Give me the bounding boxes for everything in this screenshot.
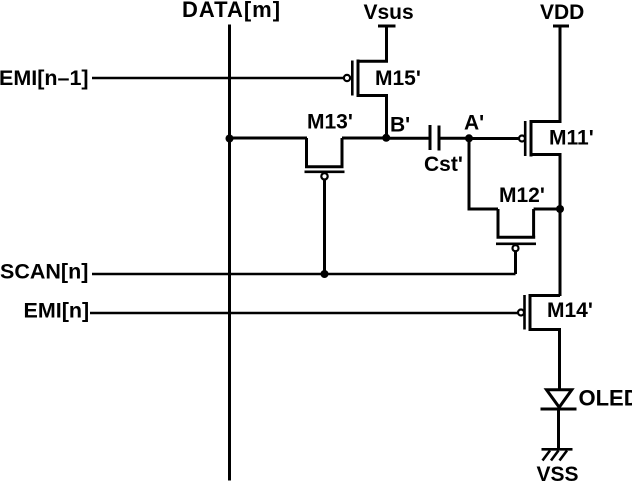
svg-text:Cst': Cst' xyxy=(424,153,463,176)
svg-text:SCAN[n]: SCAN[n] xyxy=(0,259,88,283)
power terminal Vsus xyxy=(378,25,396,28)
node A' xyxy=(465,134,473,142)
transistor M14' xyxy=(518,294,560,389)
wire row DATA to M13' xyxy=(230,137,308,140)
wire A' down to M12' xyxy=(469,139,498,210)
node B' xyxy=(382,134,390,142)
wire row M13' to B' xyxy=(342,137,386,140)
wire trunk junction to M14' xyxy=(559,209,562,296)
junction node DATA row xyxy=(226,135,234,143)
svg-text:M14': M14' xyxy=(547,299,593,322)
wire A' to M11' gate xyxy=(469,137,519,140)
wire VDD column xyxy=(559,26,562,122)
transistor M11' xyxy=(519,27,560,209)
svg-text:EMI[n–1]: EMI[n–1] xyxy=(0,66,89,90)
svg-text:DATA[m]: DATA[m] xyxy=(182,0,281,22)
wire EMI[n-1] row xyxy=(92,77,344,80)
wire EMI[n] row xyxy=(90,312,518,315)
svg-text:B': B' xyxy=(390,114,410,137)
junction node SCAN / M13' gate xyxy=(321,270,329,278)
transistor M13' xyxy=(305,138,345,274)
wire DATA column xyxy=(228,25,231,481)
wire SCAN[n] row xyxy=(92,273,516,276)
svg-text:M11': M11' xyxy=(549,127,594,150)
svg-text:M15': M15' xyxy=(375,67,421,90)
junction node M11'/M12' drain xyxy=(556,205,564,213)
transistor M12' xyxy=(496,209,560,274)
power terminal VDD xyxy=(553,25,569,28)
svg-text:OLED: OLED xyxy=(579,386,632,411)
wire OLED cathode to ground xyxy=(557,409,560,449)
wire B' to Cst' xyxy=(386,137,429,140)
svg-text:VDD: VDD xyxy=(540,1,584,24)
diode OLED xyxy=(541,390,577,409)
wire Cst' to A' xyxy=(440,137,469,140)
capacitor Cst' xyxy=(430,125,439,151)
svg-text:M12': M12' xyxy=(499,184,545,207)
svg-text:A': A' xyxy=(464,112,484,135)
ground VSS xyxy=(542,449,573,460)
svg-text:M13': M13' xyxy=(307,111,353,134)
svg-text:EMI[n]: EMI[n] xyxy=(24,298,90,322)
svg-text:Vsus: Vsus xyxy=(364,1,414,24)
svg-text:VSS: VSS xyxy=(537,463,579,482)
transistor M15' xyxy=(344,26,387,138)
